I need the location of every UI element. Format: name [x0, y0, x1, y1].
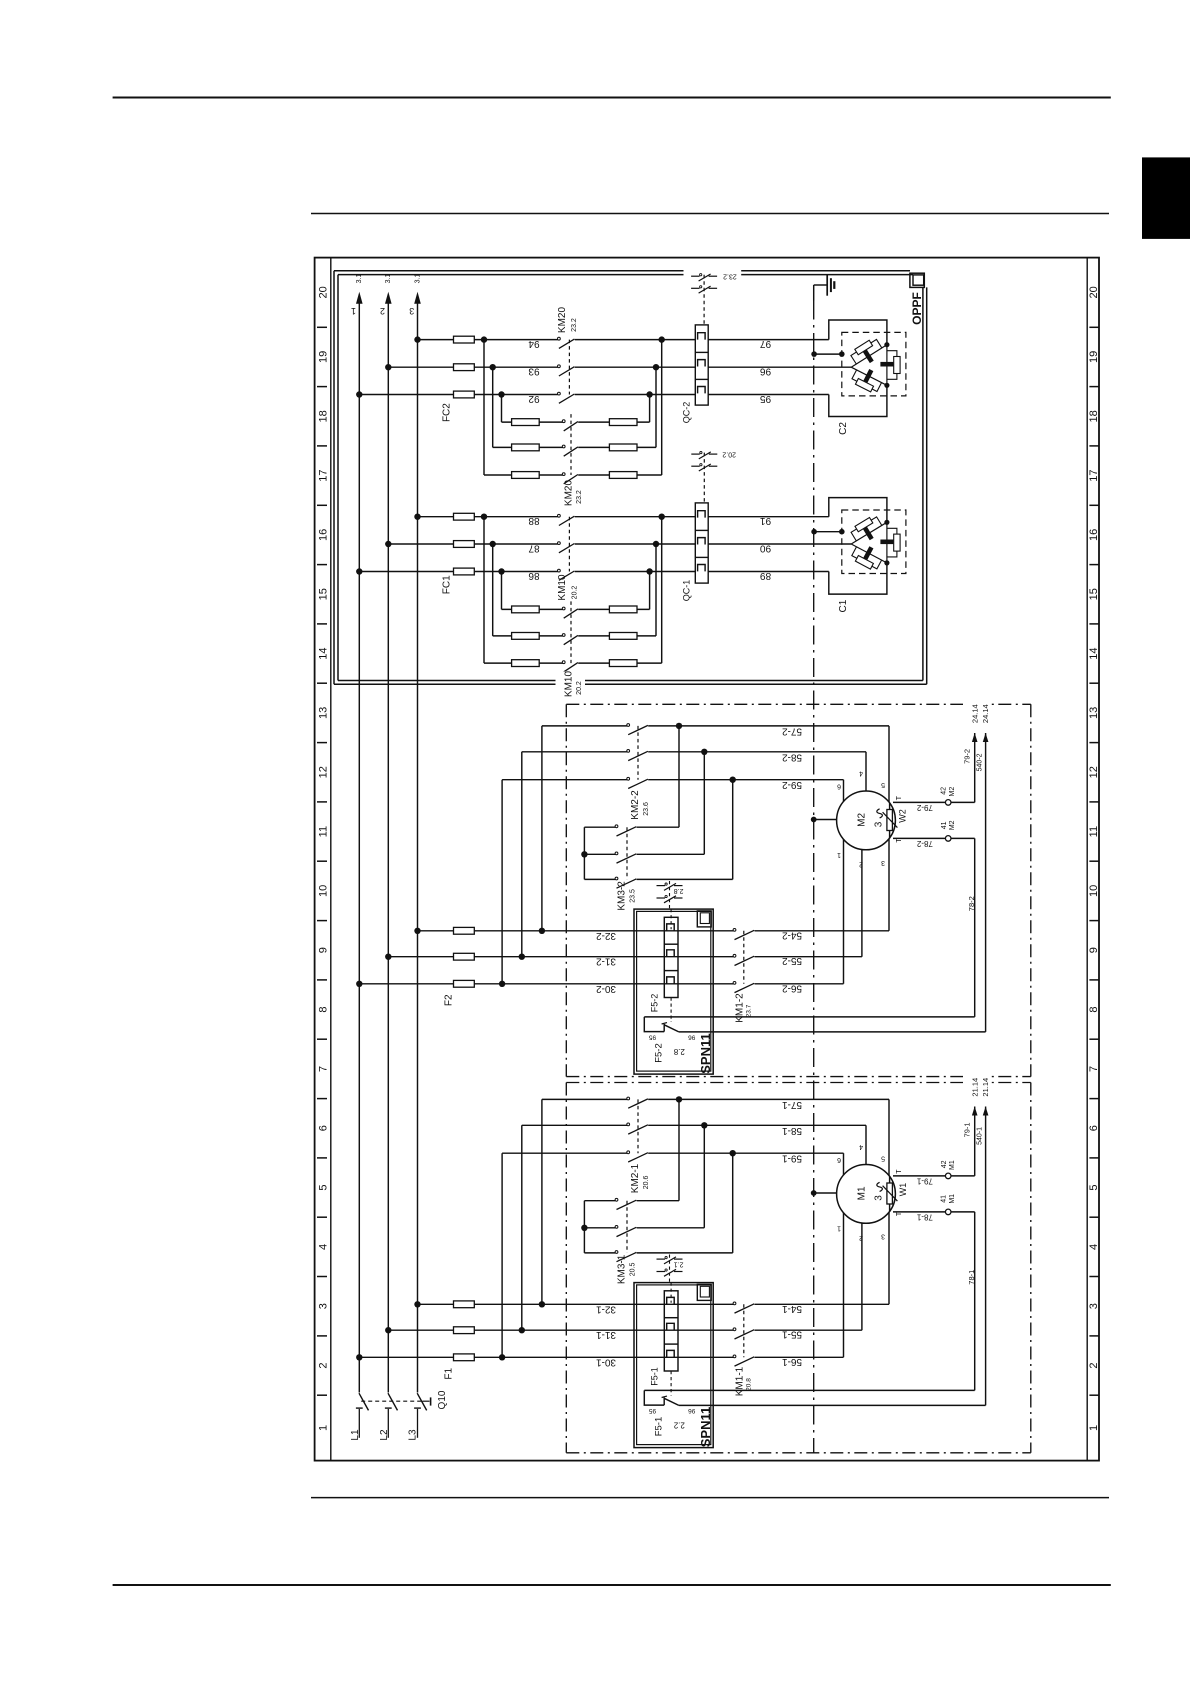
- fuse column F5-1: [664, 1291, 678, 1371]
- svg-text:10: 10: [1088, 885, 1100, 897]
- contact KM1-2 pole: [733, 954, 736, 957]
- svg-text:M1: M1: [949, 1160, 956, 1170]
- node to KM3-1: [730, 1150, 736, 1156]
- svg-text:2.8: 2.8: [674, 887, 684, 894]
- thermistor wire 79-2: [893, 801, 945, 803]
- riser KM3-2: [703, 752, 705, 855]
- svg-text:SPN11: SPN11: [698, 1033, 713, 1073]
- wire 89 row to capacitor: [708, 571, 829, 573]
- wire 88 phase row: [418, 516, 558, 518]
- wire KM3-1 pole row: [584, 1227, 615, 1229]
- svg-text:95: 95: [649, 1034, 657, 1041]
- svg-text:6: 6: [837, 782, 841, 789]
- svg-text:16: 16: [1088, 529, 1100, 541]
- svg-text:23.2: 23.2: [576, 490, 583, 504]
- svg-text:2: 2: [859, 1234, 863, 1241]
- svg-text:KM1-2: KM1-2: [735, 993, 746, 1023]
- svg-text:21.14: 21.14: [970, 1078, 979, 1097]
- wire 30-2 phase row: [359, 983, 733, 985]
- svg-text:89: 89: [760, 570, 772, 581]
- svg-text:W1: W1: [898, 1183, 908, 1197]
- capacitor C2 phase leg upper with discharge resistor: [851, 345, 887, 368]
- svg-text:4: 4: [859, 1143, 863, 1150]
- node A C1: [884, 520, 889, 525]
- fuse on row 88: [454, 513, 475, 520]
- svg-text:3.1: 3.1: [356, 274, 363, 284]
- wire KM3-2 pole row: [584, 826, 615, 828]
- svg-text:59-2: 59-2: [782, 779, 802, 790]
- svg-text:18: 18: [318, 410, 330, 422]
- node branch left 86: [498, 568, 504, 574]
- node branch left 87: [490, 541, 496, 547]
- node branch right 87: [653, 541, 659, 547]
- wire 57-1 row: [542, 1098, 627, 1100]
- wire KM3-1 pole row: [584, 1200, 615, 1202]
- svg-text:78-1: 78-1: [967, 1270, 976, 1285]
- label KM10 bank2: [556, 672, 586, 698]
- destination references: [963, 700, 992, 726]
- node on bus L2: [385, 541, 391, 547]
- fuse on row 30-2: [454, 980, 475, 987]
- svg-text:KM1-1: KM1-1: [735, 1366, 746, 1396]
- svg-text:M2: M2: [949, 787, 956, 797]
- dashed link KM3-2: [626, 827, 628, 879]
- series row with fuses and contact: [493, 635, 563, 637]
- trip contact F5-1 95-96: [644, 1389, 974, 1391]
- wire 58-2 row: [522, 751, 627, 753]
- svg-text:88: 88: [528, 515, 540, 526]
- svg-text:KM20: KM20: [557, 307, 568, 334]
- svg-text:97: 97: [760, 338, 772, 349]
- interlock contacts 20.2 for connector: [703, 453, 705, 503]
- OPPF enclosure border: [334, 270, 684, 272]
- riser to KM2-2 row: [541, 726, 543, 931]
- svg-text:56-1: 56-1: [782, 1356, 802, 1367]
- contact KM2-2 pole: [627, 750, 630, 753]
- svg-text:20: 20: [1088, 286, 1100, 298]
- fuse on row 32-2: [454, 927, 475, 934]
- node to KM3-1: [701, 1122, 707, 1128]
- svg-text:540-1: 540-1: [977, 1127, 984, 1145]
- svg-text:3: 3: [874, 821, 885, 827]
- interlock contacts 2.1: [669, 1255, 671, 1283]
- thermistor W1: [889, 1176, 891, 1212]
- OPPF corner square: [910, 273, 924, 287]
- node branch left 88: [481, 514, 487, 520]
- svg-text:9: 9: [318, 947, 330, 953]
- svg-text:23.7: 23.7: [746, 1004, 753, 1017]
- contact KM3-1 pole: [615, 1198, 618, 1201]
- fuse on row 31-2: [454, 953, 475, 960]
- svg-text:31-1: 31-1: [596, 1329, 616, 1340]
- motor lower lead: [843, 821, 845, 984]
- svg-text:10: 10: [318, 885, 330, 897]
- capacitor unit C2 dashed enclosure: [842, 332, 906, 396]
- node on bus: [385, 1327, 391, 1333]
- contact KM2-1 pole: [627, 1151, 630, 1154]
- svg-text:13: 13: [1088, 707, 1100, 719]
- wire KM3-1 pole row: [584, 1252, 615, 1254]
- node to KM3-2: [676, 723, 682, 729]
- svg-text:L3: L3: [408, 1429, 419, 1441]
- svg-text:6: 6: [837, 1156, 841, 1163]
- contact KM row 93: [558, 365, 561, 368]
- svg-text:14: 14: [318, 647, 330, 659]
- branch node: [539, 928, 545, 934]
- motor upper lead: [888, 1099, 890, 1194]
- connector QC-2: [695, 325, 708, 405]
- contact KM2-1 pole: [627, 1097, 630, 1100]
- svg-text:F5-2: F5-2: [649, 994, 659, 1013]
- svg-text:2: 2: [380, 306, 385, 316]
- delivery limit dash-dot box M1: [566, 1082, 1031, 1084]
- svg-text:30-1: 30-1: [596, 1356, 616, 1367]
- node B C1: [884, 560, 889, 565]
- motor lower lead: [843, 1194, 845, 1357]
- capacitor unit C1 feed wires: [829, 498, 887, 523]
- SPN11 corner square: [697, 911, 711, 927]
- dashed link KM10 bank1: [568, 517, 570, 572]
- svg-text:23.2: 23.2: [723, 272, 737, 279]
- svg-text:31-2: 31-2: [596, 956, 616, 967]
- svg-text:SPN11: SPN11: [698, 1407, 713, 1447]
- rule above drawing frame: [311, 213, 1109, 215]
- svg-text:20.5: 20.5: [629, 1262, 636, 1276]
- svg-text:OPPF: OPPF: [910, 292, 924, 325]
- thermistor wire 78-1: [893, 1211, 945, 1213]
- svg-text:54-2: 54-2: [782, 929, 802, 940]
- black section marker: [1142, 157, 1190, 239]
- branch verticals left: [483, 517, 485, 663]
- ground symbol: [814, 284, 828, 286]
- svg-text:3: 3: [874, 1195, 885, 1201]
- svg-text:30-2: 30-2: [596, 983, 616, 994]
- wire 59-2 row: [502, 779, 627, 781]
- svg-text:6: 6: [1088, 1125, 1100, 1131]
- wire 540-1: [985, 1107, 987, 1406]
- branch node: [519, 954, 525, 960]
- svg-text:16: 16: [318, 529, 330, 541]
- svg-text:7: 7: [317, 1066, 329, 1072]
- fuse on row 92: [454, 391, 475, 398]
- branch node: [539, 1301, 545, 1307]
- wire 54-2: [755, 930, 890, 932]
- svg-text:KM10: KM10: [557, 574, 568, 601]
- dashed link KM20 bank2: [570, 414, 572, 475]
- fuse on row 32-1: [454, 1301, 475, 1308]
- riser KM3-2: [732, 780, 734, 880]
- svg-text:17: 17: [1088, 469, 1100, 481]
- delivery limit dash-dot box M2: [566, 703, 1031, 705]
- svg-text:9: 9: [1088, 947, 1100, 953]
- svg-text:F5-1: F5-1: [654, 1417, 665, 1437]
- svg-text:3: 3: [881, 1233, 885, 1240]
- trip contact F5-2 95-96: [644, 1016, 974, 1018]
- series row with fuses and contact: [493, 446, 563, 448]
- svg-text:13: 13: [318, 707, 330, 719]
- svg-text:14: 14: [1088, 647, 1100, 659]
- svg-text:T: T: [896, 795, 903, 800]
- svg-text:5: 5: [318, 1184, 330, 1190]
- wire 87 phase row: [388, 543, 557, 545]
- svg-text:QC-1: QC-1: [682, 580, 692, 602]
- contact KM3-2 pole: [615, 852, 618, 855]
- svg-text:8: 8: [318, 1007, 330, 1013]
- node branch left 94: [481, 336, 487, 342]
- rule below drawing frame: [311, 1497, 1109, 1499]
- node to KM3-1: [676, 1096, 682, 1102]
- contact KM row 88: [558, 514, 561, 517]
- contact KM1-1 pole: [733, 1355, 736, 1358]
- contact KM2-2 pole: [627, 777, 630, 780]
- svg-text:96: 96: [688, 1407, 696, 1414]
- node on bus L2: [385, 364, 391, 370]
- motor lower lead: [861, 1194, 863, 1330]
- riser to KM2-1 row: [501, 1153, 503, 1357]
- riser KM3-1: [678, 1099, 680, 1200]
- svg-text:54-1: 54-1: [782, 1303, 802, 1314]
- contact KM1-1 pole: [733, 1302, 736, 1305]
- earth bond link C2: [814, 353, 842, 355]
- fuse on row 86: [454, 568, 475, 575]
- thermistor W2: [889, 802, 891, 838]
- node B C2: [884, 383, 889, 388]
- contact KM1-1 pole: [733, 1328, 736, 1331]
- riser to KM2-2 row: [521, 752, 523, 957]
- svg-text:41: 41: [941, 821, 948, 829]
- motor lower lead: [861, 821, 863, 957]
- branch node: [499, 981, 505, 987]
- riser KM3-2: [678, 726, 680, 827]
- svg-text:4: 4: [317, 1244, 329, 1250]
- node branch left 93: [490, 364, 496, 370]
- dashed link KM2-2: [637, 726, 639, 780]
- motor M1: [837, 1165, 896, 1224]
- svg-text:23.5: 23.5: [629, 889, 636, 903]
- svg-text:M2: M2: [856, 813, 867, 827]
- capacitor C2 phase leg right with discharge resistor: [886, 345, 888, 386]
- wire 31-1 phase row: [388, 1329, 733, 1331]
- main switch Q10: [359, 1393, 369, 1410]
- capacitor unit C1 dashed enclosure: [842, 510, 906, 574]
- node to KM3-2: [730, 777, 736, 783]
- node to KM3-2: [701, 749, 707, 755]
- svg-text:6: 6: [318, 1125, 330, 1131]
- svg-text:12: 12: [1088, 766, 1100, 778]
- branch node: [499, 1354, 505, 1360]
- svg-text:3: 3: [881, 859, 885, 866]
- frame inner border lines: [330, 258, 332, 1461]
- fuse on row 93: [454, 364, 475, 371]
- motor lower lead: [888, 1194, 890, 1304]
- dashed link KM1-1: [743, 1304, 745, 1357]
- fuse on row 87: [454, 541, 475, 548]
- wire 32-1 phase row: [418, 1303, 734, 1305]
- motor lower lead: [888, 821, 890, 931]
- series row with fuses and contact: [484, 662, 563, 664]
- svg-text:24.14: 24.14: [981, 704, 990, 723]
- wire 56-2: [755, 983, 844, 985]
- svg-text:15: 15: [318, 588, 330, 600]
- svg-text:20.2: 20.2: [722, 451, 736, 458]
- wire 32-2 phase row: [418, 930, 734, 932]
- branch verticals left: [483, 340, 485, 475]
- svg-text:KM20: KM20: [563, 480, 574, 507]
- motor upper lead: [843, 1153, 845, 1194]
- riser to KM2-1 row: [521, 1125, 523, 1330]
- contact KM3-2 pole: [615, 825, 618, 828]
- series row with fuses and contact: [484, 474, 563, 476]
- dashed link KM3-1: [626, 1201, 628, 1253]
- svg-text:W2: W2: [898, 809, 908, 823]
- svg-text:5: 5: [881, 1155, 885, 1162]
- branch verticals right: [661, 517, 663, 663]
- svg-text:21.14: 21.14: [981, 1078, 990, 1097]
- svg-text:95: 95: [760, 393, 772, 404]
- svg-text:78-1: 78-1: [916, 1213, 933, 1222]
- node on bus: [356, 1354, 362, 1360]
- contact KM row 87: [558, 542, 561, 545]
- svg-text:20.2: 20.2: [576, 681, 583, 695]
- svg-text:KM3-2: KM3-2: [617, 881, 628, 911]
- node on bus: [356, 981, 362, 987]
- page bottom rule: [113, 1584, 1111, 1586]
- svg-text:19: 19: [1088, 351, 1100, 363]
- svg-text:92: 92: [528, 393, 540, 404]
- riser to KM2-1 row: [541, 1099, 543, 1304]
- page top rule: [113, 97, 1111, 99]
- frame outer border: [315, 258, 1099, 1461]
- svg-text:42: 42: [941, 787, 948, 795]
- svg-text:F2: F2: [444, 994, 455, 1006]
- svg-text:78-2: 78-2: [916, 839, 933, 848]
- svg-text:94: 94: [528, 338, 540, 349]
- svg-text:2: 2: [1088, 1362, 1100, 1368]
- contact KM2-1 pole: [627, 1123, 630, 1126]
- series row with fuses and contact: [502, 421, 563, 423]
- svg-text:57-2: 57-2: [782, 725, 802, 736]
- node A C2: [884, 342, 889, 347]
- svg-text:18: 18: [1088, 410, 1100, 422]
- svg-text:540-2: 540-2: [977, 753, 984, 771]
- svg-text:5: 5: [1088, 1184, 1100, 1190]
- svg-text:L2: L2: [379, 1429, 390, 1441]
- contact KM3-1 pole: [615, 1251, 618, 1254]
- svg-text:KM3-1: KM3-1: [617, 1254, 628, 1284]
- riser to KM2-2 row: [501, 780, 503, 984]
- star point bar KM3-2: [583, 827, 585, 879]
- node branch right 86: [646, 568, 652, 574]
- riser KM3-1: [732, 1153, 734, 1253]
- svg-text:20.2: 20.2: [571, 586, 578, 600]
- star point bar KM3-1: [583, 1201, 585, 1253]
- contact KM3-2 pole: [615, 877, 618, 880]
- contact KM row 86: [558, 569, 561, 572]
- svg-text:87: 87: [528, 543, 540, 554]
- motor upper lead: [865, 752, 867, 821]
- svg-text:79-2: 79-2: [916, 803, 933, 812]
- wire 93 phase row: [388, 366, 557, 368]
- svg-text:56-2: 56-2: [782, 982, 802, 993]
- svg-text:F5-1: F5-1: [649, 1367, 659, 1386]
- wire 97 row to capacitor: [708, 339, 829, 341]
- svg-text:5: 5: [881, 781, 885, 788]
- svg-text:KM2-2: KM2-2: [630, 790, 641, 820]
- branch node: [519, 1327, 525, 1333]
- svg-text:96: 96: [760, 366, 772, 377]
- node on bus L3: [414, 514, 420, 520]
- node branch right 92: [646, 391, 652, 397]
- SPN11 corner square: [697, 1284, 711, 1300]
- wire 86 phase row: [359, 571, 557, 573]
- svg-text:55-1: 55-1: [782, 1329, 802, 1340]
- thermistor relay SPN11 box (F5-1): [634, 1283, 713, 1448]
- installation boundary dash-dot line: [813, 301, 815, 1453]
- capacitor C1 phase leg upper with discharge resistor: [851, 522, 887, 544]
- wire KM3-2 pole row: [584, 853, 615, 855]
- capacitor C1 phase leg lower with discharge resistor: [851, 544, 887, 563]
- svg-text:24.14: 24.14: [970, 704, 979, 723]
- wire 30-1 phase row: [359, 1356, 733, 1358]
- destination references: [963, 1074, 992, 1100]
- dashed trip links: [670, 1283, 672, 1303]
- fuse column F5-2: [664, 917, 678, 997]
- svg-text:91: 91: [760, 515, 772, 526]
- contact KM3-1 pole: [615, 1226, 618, 1229]
- svg-text:2.1: 2.1: [674, 1261, 684, 1268]
- svg-text:32-1: 32-1: [596, 1303, 616, 1314]
- wire 31-2 phase row: [388, 956, 733, 958]
- wire 94 phase row: [418, 339, 558, 341]
- wire 57-2 row: [542, 725, 627, 727]
- svg-text:C2: C2: [838, 422, 849, 435]
- wire 58-1 row: [522, 1124, 627, 1126]
- svg-text:3: 3: [318, 1303, 330, 1309]
- svg-text:96: 96: [688, 1034, 696, 1041]
- svg-text:17: 17: [318, 469, 330, 481]
- svg-text:23.6: 23.6: [643, 802, 650, 816]
- svg-text:78-2: 78-2: [967, 896, 976, 911]
- wire 95 row to capacitor: [708, 394, 829, 396]
- svg-text:41: 41: [941, 1195, 948, 1203]
- node branch right 94: [659, 336, 665, 342]
- svg-text:3.1: 3.1: [414, 274, 421, 284]
- svg-text:C1: C1: [838, 599, 849, 612]
- svg-text:7: 7: [1088, 1066, 1100, 1072]
- svg-text:1: 1: [837, 851, 841, 858]
- svg-text:3: 3: [1088, 1303, 1100, 1309]
- svg-text:3.1: 3.1: [385, 274, 392, 284]
- fuse on row 94: [454, 336, 475, 343]
- wire 540-2: [985, 733, 987, 1032]
- motor frame bond to boundary: [811, 1190, 817, 1196]
- motor frame bond to boundary: [811, 817, 817, 823]
- interlock contacts 23.2 for connector: [703, 275, 705, 325]
- wire 91 row to capacitor: [708, 516, 829, 518]
- svg-text:57-1: 57-1: [782, 1099, 802, 1110]
- svg-text:QC-2: QC-2: [682, 402, 692, 424]
- svg-text:4: 4: [1088, 1244, 1100, 1250]
- contact KM1-2 pole: [733, 982, 736, 985]
- wire 96 row to capacitor: [708, 366, 851, 368]
- node branch right 88: [659, 514, 665, 520]
- wire 55-1: [755, 1329, 862, 1331]
- fuse on row 31-1: [454, 1327, 475, 1334]
- motor upper lead: [888, 726, 890, 821]
- wire 55-2: [755, 956, 862, 958]
- interlock contacts 2.8: [669, 881, 671, 909]
- svg-text:2.8: 2.8: [673, 1047, 685, 1056]
